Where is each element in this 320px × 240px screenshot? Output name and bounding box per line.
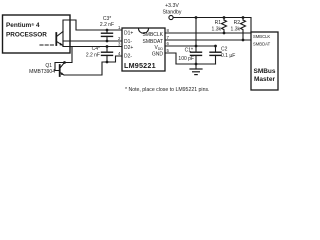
svg-text:2.2 nF: 2.2 nF [86, 53, 100, 59]
svg-text:C4*: C4* [92, 46, 100, 52]
svg-text:SMBCLK: SMBCLK [253, 34, 270, 39]
svg-text:2.2 nF: 2.2 nF [100, 22, 114, 28]
svg-text:3: 3 [118, 42, 121, 47]
svg-text:SMBDAT: SMBDAT [143, 39, 163, 45]
svg-text:LM95221: LM95221 [124, 61, 156, 70]
svg-text:MMBT3904: MMBT3904 [29, 69, 55, 75]
svg-text:4: 4 [118, 51, 121, 56]
svg-text:D1+: D1+ [124, 31, 133, 37]
svg-text:D2-: D2- [124, 54, 132, 60]
svg-text:SMBus: SMBus [253, 68, 275, 75]
svg-text:SMBCLK: SMBCLK [142, 32, 163, 38]
svg-text:6: 6 [167, 41, 170, 46]
svg-text:C1*: C1* [185, 48, 193, 54]
svg-text:Master: Master [254, 76, 275, 83]
svg-text:R1: R1 [215, 20, 222, 26]
svg-text:1.3k: 1.3k [212, 27, 222, 33]
svg-text:C2: C2 [221, 47, 228, 53]
svg-text:2: 2 [118, 36, 121, 41]
svg-text:SMBDAT: SMBDAT [253, 42, 271, 47]
svg-text:1.3k: 1.3k [231, 27, 241, 33]
svg-text:+3.3V: +3.3V [165, 3, 179, 9]
svg-text:D2+: D2+ [124, 45, 133, 51]
svg-text:* Note, place close to LM95221: * Note, place close to LM95221 pins. [125, 87, 210, 93]
svg-text:5: 5 [167, 48, 170, 53]
svg-text:PROCESSOR: PROCESSOR [6, 32, 47, 39]
svg-text:VDD: VDD [154, 45, 163, 51]
svg-text:GND: GND [152, 52, 164, 58]
svg-text:7: 7 [167, 35, 170, 40]
svg-text:1: 1 [118, 25, 121, 30]
svg-text:8: 8 [167, 28, 170, 33]
svg-text:R2: R2 [234, 20, 241, 26]
svg-text:Standby: Standby [162, 9, 181, 15]
svg-text:100 pF: 100 pF [178, 56, 194, 62]
svg-text:Pentium® 4: Pentium® 4 [6, 22, 40, 29]
svg-text:0.1 µF: 0.1 µF [221, 53, 235, 59]
